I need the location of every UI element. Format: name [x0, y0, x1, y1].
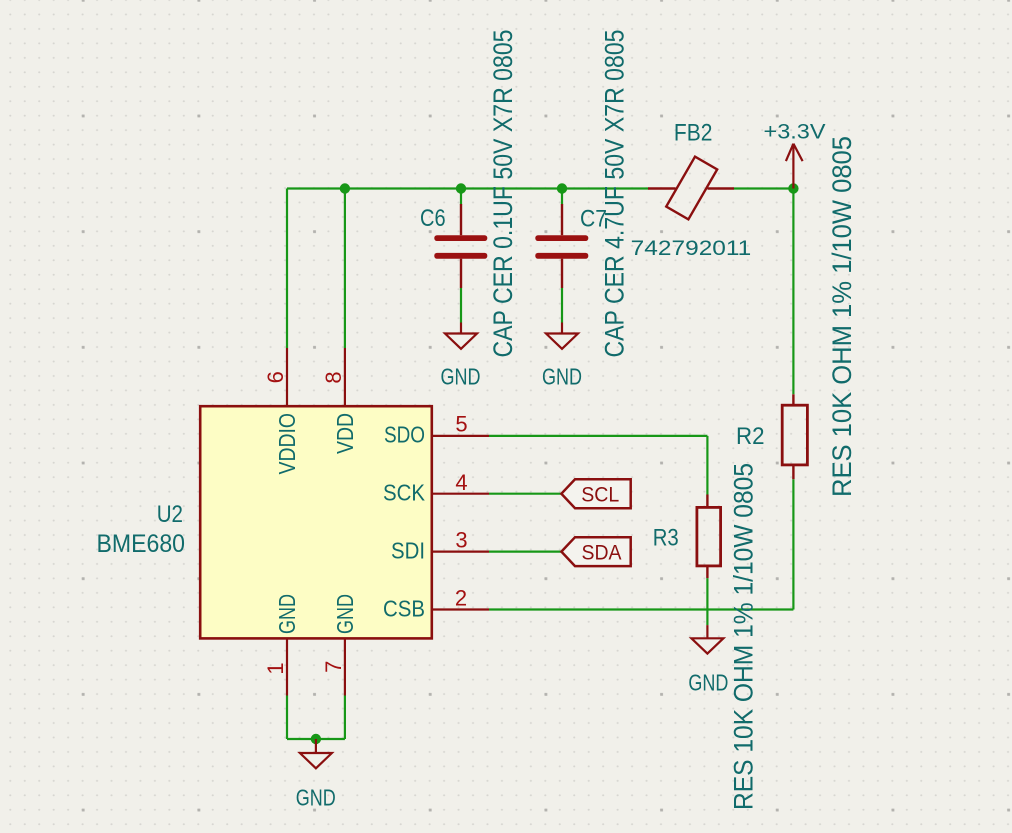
pin 2 wire stub: [431, 608, 489, 610]
wire VDD bus top horizontal left segment: [287, 187, 649, 189]
svg-text:GND: GND: [441, 364, 481, 390]
wire CSB horizontal: [489, 608, 793, 610]
svg-text:SDI: SDI: [391, 537, 425, 563]
svg-text:R3: R3: [653, 525, 679, 552]
pin 1 wire stub: [286, 638, 288, 696]
resistor R3: [697, 495, 721, 579]
svg-text:GND: GND: [274, 594, 300, 634]
wire VDD net vertical: [344, 189, 346, 349]
svg-text:GND: GND: [688, 670, 728, 696]
junction at C6: [456, 183, 466, 193]
svg-text:CSB: CSB: [383, 595, 425, 621]
wire GND pin7 vertical: [344, 696, 346, 740]
wire SDO vertical down to R3: [706, 436, 708, 495]
wire C6 top: [460, 189, 462, 205]
junction at +3.3V node: [788, 183, 798, 193]
power symbol +3.3V: [786, 144, 803, 189]
wire SDO horizontal: [489, 435, 707, 437]
svg-text:SCK: SCK: [383, 480, 426, 506]
wire GND pin1 vertical: [286, 696, 288, 740]
wire VDDIO net vertical: [286, 189, 288, 349]
svg-text:1: 1: [263, 662, 288, 674]
capacitor C7: [535, 204, 588, 288]
global label SDA: [561, 537, 630, 566]
wire C6 bottom to GND: [460, 288, 462, 323]
ground symbol bottom: [300, 739, 332, 768]
wire SDI to SDA label: [489, 550, 561, 552]
svg-text:FB2: FB2: [674, 119, 713, 146]
wire C7 bottom to GND: [561, 288, 563, 323]
ground symbol under C7: [546, 323, 578, 349]
wire R3 bottom to GND: [706, 578, 708, 625]
svg-text:SCL: SCL: [581, 483, 619, 507]
junction at bottom GND: [311, 734, 321, 744]
svg-text:GND: GND: [296, 784, 336, 810]
svg-text:CAP CER 4.7UF 50V X7R 0805: CAP CER 4.7UF 50V X7R 0805: [600, 30, 630, 358]
svg-text:3: 3: [455, 528, 467, 553]
svg-text:SDO: SDO: [384, 422, 425, 448]
svg-text:C6: C6: [420, 205, 446, 232]
svg-text:RES 10K OHM 1% 1/10W 0805: RES 10K OHM 1% 1/10W 0805: [827, 136, 857, 497]
svg-text:7: 7: [321, 661, 346, 673]
svg-text:4: 4: [455, 470, 467, 495]
svg-text:GND: GND: [542, 364, 582, 390]
capacitor C6: [434, 204, 487, 288]
ground symbol under C6: [445, 323, 477, 349]
svg-text:R2: R2: [736, 423, 765, 450]
wire C7 top: [561, 189, 563, 205]
svg-text:RES 10K OHM 1% 1/10W 0805: RES 10K OHM 1% 1/10W 0805: [728, 463, 758, 810]
junction at VDD pin8 column: [340, 183, 350, 193]
global label SCL: [561, 479, 630, 508]
junction at C7: [557, 183, 567, 193]
component U2 body: [200, 406, 432, 638]
wire top horizontal right segment (FB2 to +3.3V node): [734, 187, 793, 189]
svg-text:5: 5: [455, 412, 467, 437]
pin 7 wire stub: [344, 638, 346, 696]
pin 3 wire stub: [431, 550, 489, 552]
svg-text:BME680: BME680: [97, 530, 186, 558]
svg-text:8: 8: [321, 371, 346, 383]
svg-text:VDDIO: VDDIO: [274, 413, 300, 475]
svg-text:U2: U2: [157, 501, 183, 528]
pin 8 wire stub: [344, 348, 346, 407]
pin 4 wire stub: [431, 493, 489, 495]
wire R2 bottom vertical: [792, 479, 794, 609]
svg-text:CAP CER 0.1UF 50V X7R 0805: CAP CER 0.1UF 50V X7R 0805: [488, 30, 518, 358]
ferrite bead FB2: [648, 157, 734, 220]
wire +3.3V node down to R2: [792, 189, 794, 395]
svg-text:SDA: SDA: [582, 540, 623, 564]
wire GND bottom horizontal: [287, 738, 345, 740]
pin 5 wire stub: [431, 435, 489, 437]
svg-text:+3.3V: +3.3V: [764, 120, 826, 143]
svg-text:6: 6: [263, 371, 288, 383]
svg-text:VDD: VDD: [332, 413, 358, 454]
wire SCK to SCL label: [489, 493, 561, 495]
resistor R2: [782, 394, 807, 479]
svg-text:2: 2: [455, 586, 467, 611]
svg-text:GND: GND: [332, 594, 358, 634]
ground symbol under R3: [691, 625, 723, 654]
pin 6 wire stub: [286, 348, 288, 407]
svg-text:742792011: 742792011: [631, 237, 752, 260]
